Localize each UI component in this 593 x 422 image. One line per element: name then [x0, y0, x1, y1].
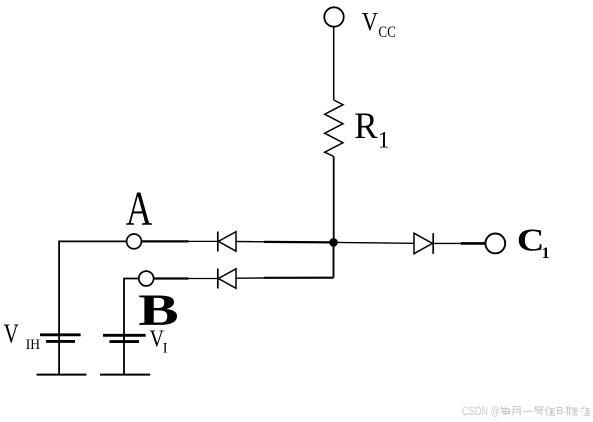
wire A to diode D1 thin part — [188, 240, 218, 242]
svg-text:V: V — [4, 319, 19, 349]
wm char yi — [523, 410, 533, 412]
wire A to diode D1 thick part — [141, 240, 188, 242]
diode D3 triangle — [414, 233, 432, 254]
ground bar VIH — [37, 374, 87, 376]
wire B to diode D2 thin part — [188, 278, 218, 280]
terminal B — [139, 271, 154, 286]
wm char shi — [558, 406, 570, 415]
wire D1 to node thin part — [236, 241, 265, 243]
wire left of terminal A — [59, 240, 127, 242]
diode D3 cathode bar — [432, 233, 434, 254]
svg-text:I: I — [163, 340, 168, 356]
diode D2 cathode bar — [217, 269, 219, 289]
wire B to diode D2 thick part — [154, 277, 189, 279]
wm char yue — [512, 407, 520, 416]
wm char zhun — [545, 406, 555, 415]
wm char mei — [501, 406, 510, 415]
wm char bai — [570, 406, 579, 415]
wm char lan — [581, 407, 591, 416]
wire node to diode D3 — [334, 241, 414, 244]
wire VCC to resistor — [333, 27, 335, 100]
ground bar VI — [100, 374, 150, 376]
svg-text:V: V — [362, 8, 378, 37]
svg-text:A: A — [126, 182, 153, 236]
svg-text:1: 1 — [542, 245, 550, 262]
battery VIH bottom plate — [46, 340, 75, 343]
svg-text:1: 1 — [378, 128, 390, 154]
resistor R1 — [325, 100, 343, 157]
terminal C1 — [485, 234, 505, 254]
wire corner up to node — [333, 242, 335, 277]
svg-text:CSDN @: CSDN @ — [462, 406, 500, 418]
diode D1 triangle — [218, 232, 236, 252]
diode D1 cathode bar — [217, 232, 219, 252]
diode D2 triangle — [218, 269, 236, 289]
terminal A — [127, 234, 142, 249]
terminal VCC — [324, 7, 343, 26]
wire corner A down to battery VIH — [58, 241, 60, 375]
svg-text:CC: CC — [378, 24, 395, 41]
wire D2 to corner thick part — [264, 277, 334, 279]
battery VIH top plate — [40, 333, 81, 336]
wire D2 to corner thin part — [236, 277, 265, 279]
wire resistor to node — [333, 157, 335, 243]
wire D3 to terminal C1 — [433, 242, 462, 244]
svg-text:R: R — [354, 105, 378, 146]
battery VI top plate — [103, 334, 146, 337]
wire D1 to node thick part — [264, 241, 334, 244]
svg-text:IH: IH — [26, 338, 40, 354]
wire B left and down to battery VI — [124, 279, 139, 375]
wm char hao — [535, 407, 544, 415]
wire thick segment — [461, 242, 486, 245]
svg-text:C: C — [517, 223, 545, 258]
battery VI bottom plate — [110, 340, 140, 343]
node junction — [329, 238, 338, 247]
